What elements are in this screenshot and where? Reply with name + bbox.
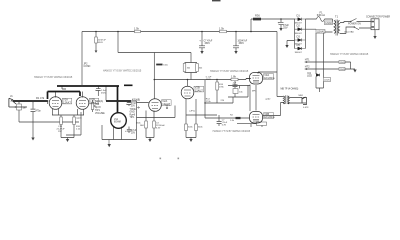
- svg-text:HANGO YT IS BY WATEC 03/2015: HANGO YT IS BY WATEC 03/2015: [213, 130, 251, 133]
- svg-text:Rp=8: Rp=8: [95, 107, 101, 109]
- svg-text:(gnd): (gnd): [77, 118, 82, 120]
- svg-text:CONNECTOR POWER: CONNECTOR POWER: [366, 16, 390, 18]
- svg-text:450V: 450V: [98, 42, 104, 44]
- svg-text:1.5k: 1.5k: [134, 27, 140, 31]
- svg-text:6.3V: 6.3V: [156, 127, 161, 129]
- svg-text:VOLUME: VOLUME: [95, 113, 105, 115]
- svg-text:450V: 450V: [205, 43, 211, 45]
- svg-text:ECL82/A: ECL82/A: [264, 115, 275, 119]
- svg-text:ON-LOAD: ON-LOAD: [344, 30, 354, 33]
- svg-text:12VAC: 12VAC: [325, 22, 332, 25]
- svg-text:8OHM: 8OHM: [114, 121, 121, 123]
- svg-text:L2025: L2025: [324, 80, 331, 82]
- svg-text:115VAC: 115VAC: [317, 30, 326, 33]
- svg-text:1N4007: 1N4007: [295, 52, 303, 54]
- svg-text:HANGO YT IS BY WATEC 03/2015: HANGO YT IS BY WATEC 03/2015: [34, 76, 73, 79]
- svg-text:12AX7: 12AX7: [63, 100, 71, 104]
- svg-text:D5: D5: [297, 43, 301, 47]
- svg-text:12AU7: 12AU7: [195, 88, 203, 92]
- svg-text:TB1: TB1: [95, 104, 100, 106]
- svg-text:TIP1: TIP1: [130, 117, 136, 119]
- svg-text:470p: 470p: [36, 111, 42, 113]
- svg-text:gnd2: gnd2: [266, 98, 272, 100]
- svg-text:D3: D3: [297, 34, 301, 38]
- svg-text:HT1: HT1: [305, 57, 310, 61]
- svg-text:HANGO YT IS BY WATEC 03/2015: HANGO YT IS BY WATEC 03/2015: [103, 70, 142, 73]
- svg-text:HT2: HT2: [305, 64, 310, 68]
- svg-text:1.8k: 1.8k: [231, 74, 237, 78]
- svg-text:D1: D1: [297, 13, 301, 17]
- svg-text:400V: 400V: [206, 79, 212, 81]
- svg-text:ECL82/A: ECL82/A: [264, 76, 275, 80]
- svg-text:25V: 25V: [283, 25, 288, 29]
- svg-text:MB1: MB1: [299, 95, 304, 97]
- svg-text:TIP1: TIP1: [95, 110, 101, 112]
- svg-text:450V: 450V: [101, 92, 107, 94]
- svg-text:GND1: GND1: [340, 62, 347, 64]
- svg-text:R1 47k: R1 47k: [36, 96, 45, 100]
- svg-text:470k(B): 470k(B): [132, 100, 140, 102]
- svg-text:25V: 25V: [131, 132, 136, 134]
- svg-text:450V: 450V: [239, 43, 245, 45]
- svg-text:(JP1): (JP1): [190, 111, 195, 113]
- svg-text:1.5k: 1.5k: [219, 27, 225, 31]
- svg-text:.1uF: .1uF: [232, 83, 237, 85]
- svg-text:D2: D2: [297, 24, 301, 28]
- svg-text:MB 7P (4 OHMS): MB 7P (4 OHMS): [281, 88, 299, 90]
- svg-text:Rg=8: Rg=8: [130, 114, 136, 116]
- svg-text:HANGO YT IS BY WATEC 03/2015: HANGO YT IS BY WATEC 03/2015: [330, 53, 369, 56]
- svg-text:25V: 25V: [58, 131, 62, 133]
- svg-text:25V: 25V: [131, 106, 136, 108]
- svg-text:0.47F: 0.47F: [303, 107, 309, 109]
- svg-text:GND2: GND2: [340, 69, 347, 71]
- svg-text:TONE: TONE: [130, 109, 137, 111]
- svg-text:1M: 1M: [23, 108, 26, 110]
- svg-text:HANGO YT IS BY WATEC 03/2015: HANGO YT IS BY WATEC 03/2015: [210, 70, 249, 73]
- svg-text:LED: LED: [307, 74, 312, 78]
- svg-text:R36: R36: [255, 14, 260, 18]
- svg-text:+: +: [278, 21, 280, 25]
- svg-text:6.3V: 6.3V: [222, 124, 227, 126]
- svg-text:GND: GND: [130, 112, 135, 114]
- svg-text:POWER ON: POWER ON: [348, 24, 361, 26]
- svg-text:CONN: CONN: [84, 66, 91, 68]
- svg-text:630mA: 630mA: [317, 13, 325, 17]
- svg-text:500k(A): 500k(A): [95, 100, 103, 103]
- svg-text:MP1: MP1: [166, 105, 171, 107]
